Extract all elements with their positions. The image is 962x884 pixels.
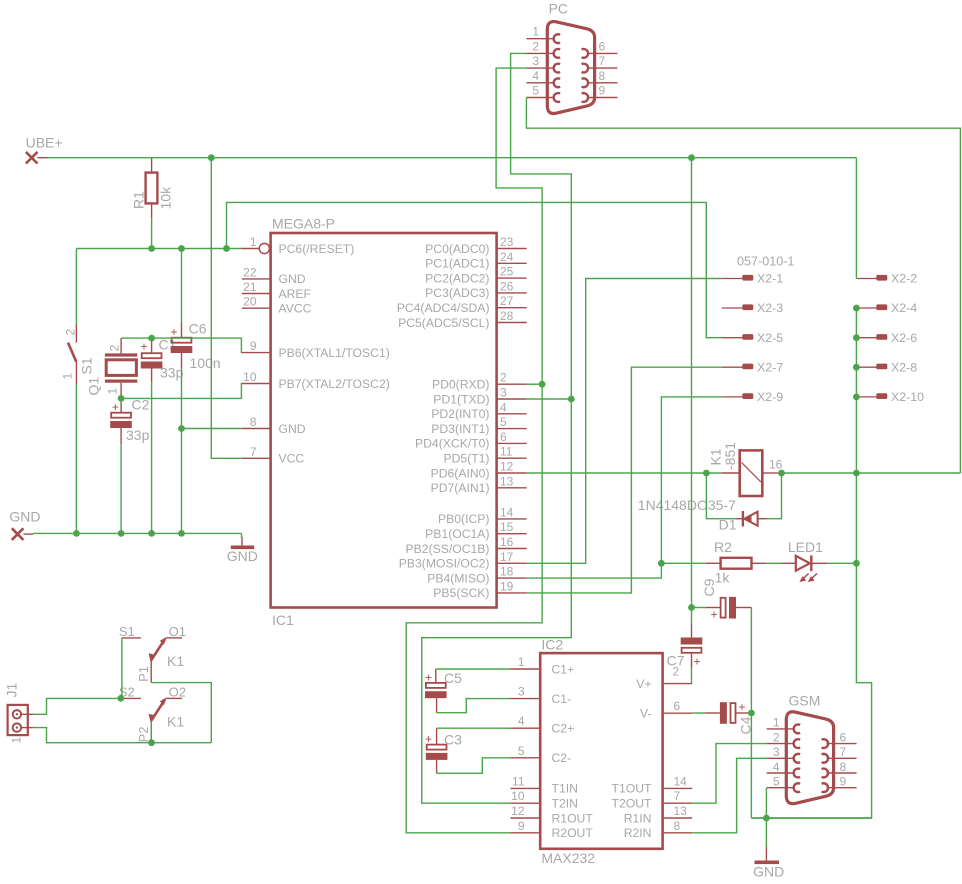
svg-text:PC1(ADC1): PC1(ADC1) <box>425 257 489 271</box>
svg-text:X2-2: X2-2 <box>891 272 917 286</box>
pin X2-8 <box>856 366 877 368</box>
wire LED to X2 column <box>827 562 856 564</box>
svg-text:27: 27 <box>500 294 514 308</box>
connector J1 <box>8 705 28 735</box>
svg-text:2: 2 <box>108 345 122 352</box>
svg-text:PC: PC <box>549 1 568 17</box>
svg-text:AVCC: AVCC <box>279 302 312 316</box>
svg-text:R2IN: R2IN <box>624 826 652 840</box>
wire XTAL2 row to pin10 <box>121 384 242 399</box>
svg-text:C2-: C2- <box>552 751 572 765</box>
svg-text:100n: 100n <box>190 355 221 371</box>
svg-text:9: 9 <box>518 819 525 833</box>
pin X2-4 <box>856 307 877 309</box>
wire PD0 to PC pin3 net <box>527 383 542 385</box>
svg-text:+: + <box>694 655 701 669</box>
wire pin8 row <box>182 428 242 430</box>
node UBE+/VCC <box>208 154 215 161</box>
wire IC2 pin4 to C3 <box>437 727 511 729</box>
svg-text:12: 12 <box>511 804 525 818</box>
svg-text:T2IN: T2IN <box>552 797 578 811</box>
svg-text:23: 23 <box>500 235 514 249</box>
IC1 body <box>271 233 497 608</box>
svg-text:3: 3 <box>500 386 507 400</box>
svg-text:1: 1 <box>10 737 24 744</box>
svg-text:9: 9 <box>250 339 257 353</box>
svg-text:R1IN: R1IN <box>624 811 652 825</box>
svg-text:5: 5 <box>773 775 780 789</box>
svg-text:K1: K1 <box>167 653 184 669</box>
svg-text:6: 6 <box>500 430 507 444</box>
svg-text:-851: -851 <box>722 442 738 470</box>
svg-text:+: + <box>141 340 148 354</box>
svg-text:1: 1 <box>61 373 75 380</box>
svg-text:R1: R1 <box>131 191 147 209</box>
svg-text:X2-9: X2-9 <box>757 390 783 404</box>
svg-text:26: 26 <box>500 279 514 293</box>
node GND/C6 <box>178 530 185 537</box>
resistor R2 <box>706 562 721 564</box>
svg-text:17: 17 <box>500 550 514 564</box>
svg-text:X2-1: X2-1 <box>757 272 783 286</box>
node GND/C1 <box>148 530 155 537</box>
svg-text:+: + <box>425 732 432 746</box>
wire R2IN to GSM pin3 <box>692 758 766 833</box>
svg-text:1: 1 <box>532 25 539 39</box>
svg-text:T2OUT: T2OUT <box>612 797 653 811</box>
svg-text:V-: V- <box>640 707 652 721</box>
svg-text:T1OUT: T1OUT <box>612 782 653 796</box>
wire C1 bottom <box>151 382 153 533</box>
wire UBE+ down to C9/C7 node <box>691 158 693 608</box>
node RESET/C6 <box>178 245 185 252</box>
svg-text:7: 7 <box>840 745 847 759</box>
wire GND2 stem <box>765 818 767 847</box>
svg-text:16: 16 <box>769 458 783 472</box>
svg-text:PC3(ADC3): PC3(ADC3) <box>425 286 489 300</box>
wire C9 node to left plate <box>692 607 707 609</box>
svg-text:1: 1 <box>250 235 257 249</box>
svg-text:P2: P2 <box>136 726 151 742</box>
svg-text:PB4(MISO): PB4(MISO) <box>427 571 489 585</box>
svg-text:2: 2 <box>64 329 78 336</box>
wire PC pin3 net <box>406 68 542 833</box>
pin X2-1 <box>722 278 743 280</box>
capacitor C1 <box>151 338 153 353</box>
svg-text:J1: J1 <box>4 683 20 698</box>
svg-text:7: 7 <box>674 789 681 803</box>
svg-text:PB7(XTAL2/TOSC2): PB7(XTAL2/TOSC2) <box>279 377 390 391</box>
svg-text:1: 1 <box>773 716 780 730</box>
svg-text:PC0(ADC0): PC0(ADC0) <box>425 242 489 256</box>
svg-text:13: 13 <box>500 474 514 488</box>
svg-text:Q1: Q1 <box>86 377 102 396</box>
svg-text:4: 4 <box>518 714 525 728</box>
supply UBE+ <box>26 152 38 164</box>
node X2-10 <box>853 394 860 401</box>
svg-text:PD5(T1): PD5(T1) <box>443 452 489 466</box>
node XTAL2/C2 <box>118 395 125 402</box>
svg-text:15: 15 <box>500 520 514 534</box>
svg-text:X2-5: X2-5 <box>757 331 783 345</box>
wire XTAL1 row to pin9 <box>121 338 242 353</box>
node UBE+/C9 <box>688 154 695 161</box>
node X2-8 <box>853 364 860 371</box>
svg-text:IC2: IC2 <box>541 637 563 653</box>
wire C6 top <box>181 249 183 323</box>
wire S1 pin1 down <box>75 384 77 533</box>
svg-text:14: 14 <box>674 774 688 788</box>
pin X2-6 <box>856 337 877 339</box>
node PD1 <box>568 396 575 403</box>
wire T2OUT to GSM pin2 <box>692 744 766 804</box>
svg-text:X2-4: X2-4 <box>891 301 917 315</box>
svg-text:GSM: GSM <box>789 693 821 709</box>
svg-text:X2-3: X2-3 <box>757 301 783 315</box>
svg-text:28: 28 <box>500 309 514 323</box>
svg-text:O1: O1 <box>169 624 186 639</box>
svg-text:3: 3 <box>518 685 525 699</box>
svg-text:MEGA8-P: MEGA8-P <box>272 216 335 232</box>
svg-text:5: 5 <box>532 84 539 98</box>
svg-text:PD7(AIN1): PD7(AIN1) <box>431 481 490 495</box>
svg-text:11: 11 <box>512 774 525 788</box>
svg-text:K1: K1 <box>167 713 184 729</box>
wire GND rail <box>33 532 242 534</box>
relay contact K1 (P1/S1/O1) <box>122 637 141 639</box>
svg-text:8: 8 <box>599 69 606 83</box>
svg-text:+: + <box>425 671 432 685</box>
svg-text:2: 2 <box>673 665 680 679</box>
wire X2 right column <box>855 308 857 473</box>
node LED/X2col <box>853 560 860 567</box>
svg-text:2: 2 <box>500 371 507 385</box>
svg-text:12: 12 <box>500 460 514 474</box>
wire X2-9 to LED node <box>661 397 721 563</box>
svg-text:14: 14 <box>500 505 514 519</box>
svg-text:9: 9 <box>599 84 606 98</box>
capacitor C4 <box>705 712 720 714</box>
capacitor C2 <box>120 398 122 412</box>
svg-text:PD0(RXD): PD0(RXD) <box>432 378 490 392</box>
node X2-6 <box>853 334 860 341</box>
svg-text:GND: GND <box>227 548 258 564</box>
wire relay row left <box>527 472 722 474</box>
ground GND bottom <box>765 845 767 861</box>
wire GND2 row <box>751 817 871 819</box>
svg-text:+: + <box>739 700 746 714</box>
resistor R1 <box>151 158 153 173</box>
svg-text:P1: P1 <box>136 666 151 682</box>
svg-text:PC6(/RESET): PC6(/RESET) <box>279 242 355 256</box>
node S2 node <box>117 695 124 702</box>
svg-text:GND: GND <box>279 422 306 436</box>
pin X2-3 <box>722 307 743 309</box>
node C4 node <box>748 710 755 717</box>
connector GSM (DB9) <box>786 712 833 804</box>
svg-text:13: 13 <box>674 804 688 818</box>
svg-text:21: 21 <box>243 280 257 294</box>
svg-text:X2-8: X2-8 <box>891 360 917 374</box>
svg-text:8: 8 <box>674 819 681 833</box>
svg-text:33p: 33p <box>126 427 150 443</box>
wire IC2 pin1 to C5 <box>436 668 511 670</box>
wire X2 col down to GSM frame <box>751 473 871 818</box>
wire D1 right <box>766 473 781 519</box>
wire C9 right to C4 node <box>750 608 752 819</box>
svg-text:PD3(INT1): PD3(INT1) <box>431 422 489 436</box>
svg-text:C3: C3 <box>444 732 462 748</box>
svg-text:PB0(ICP): PB0(ICP) <box>438 512 489 526</box>
capacitor C5 <box>435 669 437 683</box>
svg-text:GND: GND <box>9 509 40 525</box>
wire RESET row <box>76 248 242 250</box>
svg-text:2: 2 <box>773 730 780 744</box>
relay coil K1 <box>722 472 740 474</box>
capacitor C6 <box>181 323 183 338</box>
wire R1 bottom <box>151 218 153 248</box>
supply GND left <box>12 528 24 540</box>
svg-text:O2: O2 <box>169 684 186 699</box>
svg-text:X2-10: X2-10 <box>891 390 924 404</box>
svg-text:1N4148DO35-7: 1N4148DO35-7 <box>638 497 736 513</box>
svg-text:5: 5 <box>518 744 525 758</box>
wire D1 left <box>706 473 736 519</box>
svg-text:6: 6 <box>840 730 847 744</box>
wire UBE+ rail <box>47 157 856 159</box>
svg-text:PC4(ADC4/SDA): PC4(ADC4/SDA) <box>397 301 490 315</box>
svg-text:10: 10 <box>511 789 525 803</box>
svg-text:PC5(ADC5/SCL): PC5(ADC5/SCL) <box>398 316 489 330</box>
wire pin18 to LED node <box>527 563 662 578</box>
svg-text:4: 4 <box>500 400 507 414</box>
wire V- to C4 <box>692 712 705 714</box>
svg-text:8: 8 <box>250 415 257 429</box>
svg-text:PC2(ADC2): PC2(ADC2) <box>425 271 489 285</box>
svg-text:+: + <box>171 325 178 339</box>
svg-text:PB2(SS/OC1B): PB2(SS/OC1B) <box>406 542 490 556</box>
pin X2-9 <box>722 396 743 398</box>
svg-text:PB1(OC1A): PB1(OC1A) <box>425 527 489 541</box>
node C9/C7 <box>688 604 695 611</box>
svg-text:C1+: C1+ <box>552 662 575 676</box>
wire P2 down <box>150 721 152 743</box>
crystal Q1 <box>120 338 122 353</box>
wire P1 to P2 node <box>151 683 211 743</box>
svg-text:R1OUT: R1OUT <box>552 811 594 825</box>
wire pin17 to X2-1 <box>527 279 722 564</box>
switch S1 <box>75 324 77 343</box>
node GND2 <box>763 815 770 822</box>
wire C9 node down to C7 <box>691 608 693 623</box>
node P2 node <box>148 739 155 746</box>
node RESET/X2-5 <box>223 245 230 252</box>
svg-text:+: + <box>112 400 119 414</box>
node X2-4 <box>853 305 860 312</box>
svg-text:PB3(MOSI/OC2): PB3(MOSI/OC2) <box>399 557 490 571</box>
node XTAL1/C1 <box>148 335 155 342</box>
connector PC (DB9) <box>547 22 594 114</box>
capacitor C3 <box>436 728 438 744</box>
node RESET/R1 <box>148 245 155 252</box>
svg-text:1: 1 <box>106 388 120 395</box>
svg-text:25: 25 <box>500 265 514 279</box>
svg-text:PD4(XCK/T0): PD4(XCK/T0) <box>415 437 490 451</box>
svg-text:PD2(INT0): PD2(INT0) <box>431 407 489 421</box>
wire S1 to RESET <box>75 249 77 324</box>
svg-text:19: 19 <box>500 579 514 593</box>
wire C3 bottom to pin5 <box>437 758 511 774</box>
pin X2-5 <box>722 337 743 339</box>
node relay/X2col <box>853 470 860 477</box>
svg-text:PB6(XTAL1/TOSC1): PB6(XTAL1/TOSC1) <box>279 346 390 360</box>
wire UBE+ to VCC pin7 <box>211 158 242 459</box>
svg-text:1: 1 <box>518 655 525 669</box>
wire relay row right <box>777 472 960 474</box>
svg-text:UBE+: UBE+ <box>26 135 63 151</box>
wire LED row left <box>661 562 706 564</box>
wire RESET to X2-5 <box>227 202 722 337</box>
wire C6 bottom to pin8/GND <box>181 369 183 534</box>
svg-text:3: 3 <box>532 54 539 68</box>
svg-text:10: 10 <box>243 370 257 384</box>
svg-text:7: 7 <box>599 54 606 68</box>
capacitor C9 <box>705 607 721 609</box>
svg-text:PB5(SCK): PB5(SCK) <box>433 586 489 600</box>
diode D1 1N4148 <box>736 518 742 520</box>
svg-text:6: 6 <box>599 39 606 53</box>
svg-text:C6: C6 <box>189 321 207 337</box>
wire S1 contact down to S2 node <box>121 638 123 699</box>
relay contact K1 (P2/S2/O2) <box>122 697 141 699</box>
wire GSM pin5 up from GND2 <box>765 788 767 818</box>
svg-text:6: 6 <box>674 699 681 713</box>
node relay/D1 right <box>778 470 785 477</box>
node pin8/C6 <box>178 425 185 432</box>
svg-text:5: 5 <box>500 415 507 429</box>
svg-text:AREF: AREF <box>279 287 312 301</box>
wire GND symbol stem <box>241 533 243 538</box>
svg-text:S1: S1 <box>79 357 95 374</box>
wire C5 bottom to pin3 <box>437 699 511 713</box>
svg-text:R2OUT: R2OUT <box>552 826 594 840</box>
node GND/S1 <box>73 530 80 537</box>
svg-text:057-010-1: 057-010-1 <box>737 255 794 269</box>
svg-text:22: 22 <box>243 265 257 279</box>
svg-text:C1-: C1- <box>552 692 572 706</box>
svg-text:11: 11 <box>500 445 513 459</box>
svg-text:C9: C9 <box>701 578 717 596</box>
svg-text:7: 7 <box>250 445 257 459</box>
svg-text:X2-6: X2-6 <box>891 331 917 345</box>
svg-text:T1IN: T1IN <box>552 782 578 796</box>
pin X2-7 <box>722 366 743 368</box>
capacitor C7 <box>691 623 693 638</box>
node GND/C2 <box>118 530 125 537</box>
svg-text:+: + <box>711 608 718 622</box>
node relay/D1 left <box>703 470 710 477</box>
wire R2 to LED <box>766 562 781 564</box>
wire UBE+ to X2-2 <box>855 158 857 279</box>
pin X2-10 <box>856 396 877 398</box>
wire PD1 to PC pin2 net <box>527 398 572 400</box>
svg-text:C5: C5 <box>444 670 462 686</box>
svg-text:IC1: IC1 <box>272 612 294 628</box>
svg-text:VCC: VCC <box>279 452 305 466</box>
svg-text:33p: 33p <box>160 365 184 381</box>
svg-text:LED1: LED1 <box>788 539 823 555</box>
svg-text:S1: S1 <box>119 624 135 639</box>
wire PC pin2 net <box>422 53 572 803</box>
pin X2-2 <box>856 278 877 280</box>
svg-text:MAX232: MAX232 <box>541 850 595 866</box>
svg-text:R2: R2 <box>714 539 732 555</box>
wire pin19 to X2-7 <box>527 367 722 593</box>
node PD0 <box>539 381 546 388</box>
svg-text:10k: 10k <box>158 186 174 210</box>
svg-text:V+: V+ <box>636 677 651 691</box>
svg-text:X2-7: X2-7 <box>757 360 783 374</box>
svg-text:4: 4 <box>532 69 539 83</box>
wire C2 bottom <box>120 444 122 533</box>
svg-text:C2+: C2+ <box>552 722 575 736</box>
ground GND mid <box>241 537 243 546</box>
svg-text:24: 24 <box>500 250 514 264</box>
svg-text:9: 9 <box>840 775 847 789</box>
node LED node <box>658 560 665 567</box>
svg-text:20: 20 <box>243 295 257 309</box>
svg-text:4: 4 <box>773 760 780 774</box>
svg-text:PD6(AIN0): PD6(AIN0) <box>431 466 490 480</box>
LED LED1 <box>781 562 796 564</box>
wire J1 pin2 rail <box>33 728 211 743</box>
svg-text:8: 8 <box>840 760 847 774</box>
svg-text:3: 3 <box>773 745 780 759</box>
IC2 body MAX232 <box>540 653 662 849</box>
wire PC pin5 net <box>526 98 960 474</box>
svg-text:GND: GND <box>753 864 784 880</box>
wire C7 bottom elbow <box>691 668 693 684</box>
wire J1 pin1 to S2 node <box>33 698 122 714</box>
svg-text:PD1(TXD): PD1(TXD) <box>433 392 489 406</box>
svg-text:2: 2 <box>532 39 539 53</box>
svg-text:18: 18 <box>500 565 514 579</box>
svg-text:GND: GND <box>279 272 306 286</box>
svg-text:16: 16 <box>500 535 514 549</box>
